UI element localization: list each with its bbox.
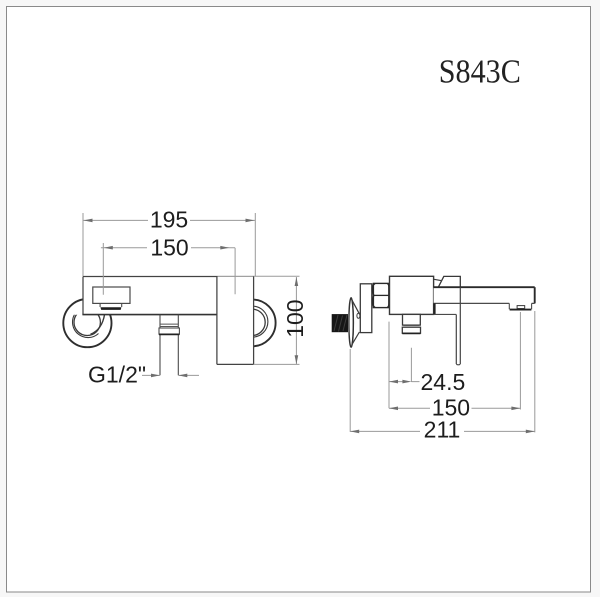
side view: eccentric connector [357, 284, 372, 333]
side view: body [390, 276, 434, 314]
dimension 150 side [389, 312, 520, 421]
front view: left escutcheon [63, 299, 111, 347]
dimension 150 front [101, 235, 235, 295]
dimension 24.5 [389, 322, 465, 409]
label G1/2" [88, 362, 199, 388]
front view: spout box [93, 287, 130, 303]
svg-text:195: 195 [150, 207, 188, 233]
svg-text:150: 150 [150, 235, 188, 261]
svg-text:24.5: 24.5 [421, 369, 466, 395]
side view: escutcheon flange [349, 298, 360, 348]
front view: body bar [82, 277, 253, 315]
front view: aerator [100, 303, 122, 310]
side view: spout aerator [509, 303, 531, 309]
svg-text:G1/2": G1/2" [88, 362, 146, 388]
svg-text:S843C: S843C [439, 54, 521, 91]
product code S843C [439, 54, 521, 91]
side view: shower outlet [402, 314, 420, 333]
svg-text:211: 211 [424, 416, 461, 442]
dimension 211 [350, 311, 535, 442]
dimension 195 [83, 207, 255, 277]
side view: handle base [434, 276, 460, 287]
side view: wall nipple (threaded, dark) [332, 314, 348, 332]
front view: right escutcheon [229, 300, 276, 347]
side view: body-spout joint [434, 303, 457, 314]
front view: cartridge housing [217, 277, 254, 365]
side view: lever shank [456, 287, 460, 365]
front view: shower outlet fitting G1/2 [159, 315, 179, 376]
dimension 100 [254, 276, 308, 364]
svg-text:100: 100 [282, 299, 308, 337]
side view: spout [434, 287, 535, 303]
side view: hex nut [372, 283, 389, 307]
